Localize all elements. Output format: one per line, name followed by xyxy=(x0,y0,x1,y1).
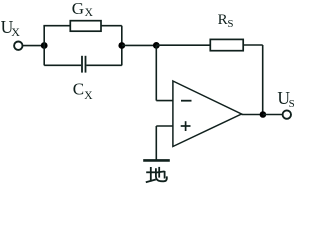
svg-text:X: X xyxy=(11,25,20,39)
svg-text:X: X xyxy=(84,90,93,102)
label CX xyxy=(73,80,93,103)
node B (right junction of parallel network) xyxy=(118,42,125,49)
wire node D to output terminal xyxy=(263,114,283,116)
label Ux xyxy=(1,17,21,39)
label Us xyxy=(277,88,294,110)
wire non-inverting input down to ground xyxy=(155,126,157,160)
wire bottom branch left xyxy=(44,64,81,66)
resistor GX xyxy=(70,21,101,32)
node C (summing junction) xyxy=(153,42,160,49)
svg-text:S: S xyxy=(227,18,233,30)
node D (output junction) xyxy=(260,111,267,118)
plus sign (non-inverting input) xyxy=(181,121,191,131)
svg-text:G: G xyxy=(72,0,84,18)
svg-text:X: X xyxy=(85,7,94,19)
wire op-amp output to node D xyxy=(242,114,263,116)
wire top branch left xyxy=(43,25,70,27)
wire RS to corner xyxy=(243,44,263,46)
wire vertical right branch xyxy=(121,26,123,66)
label GX xyxy=(72,0,94,19)
svg-text:C: C xyxy=(73,80,84,99)
label ground (Chinese character di) xyxy=(146,167,167,182)
input terminal Ux xyxy=(14,42,22,50)
wire node C to resistor RS xyxy=(156,44,210,46)
output terminal Us xyxy=(283,110,291,118)
wire node B to node C xyxy=(122,44,157,46)
op-amp U1 xyxy=(173,81,242,147)
wire feedback vertical xyxy=(262,45,264,115)
wire vertical left branch xyxy=(43,26,45,66)
svg-text:R: R xyxy=(218,12,228,28)
wire top branch right xyxy=(101,25,122,27)
label RS xyxy=(218,12,234,30)
resistor RS xyxy=(210,39,243,50)
wire into inverting input xyxy=(156,100,173,102)
svg-text:S: S xyxy=(289,98,295,110)
wire node C down to inverting input xyxy=(155,45,157,100)
wire input terminal to node A xyxy=(23,45,44,47)
wire into non-inverting input xyxy=(156,125,173,127)
capacitor CX xyxy=(82,56,86,73)
minus sign (inverting input) xyxy=(181,100,192,102)
node A (left junction) xyxy=(41,42,48,49)
ground bar xyxy=(143,159,170,162)
wire bottom branch right xyxy=(86,64,121,66)
